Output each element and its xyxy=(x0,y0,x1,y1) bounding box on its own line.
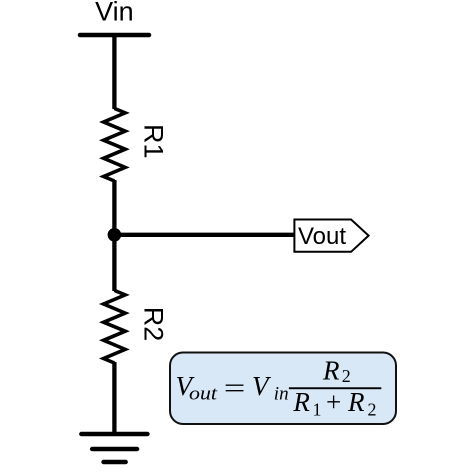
wire node to Vout xyxy=(114,233,294,237)
svg-text:+: + xyxy=(326,387,341,417)
svg-text:R1: R1 xyxy=(139,124,169,159)
svg-text:1: 1 xyxy=(313,399,322,419)
wire R2 to ground xyxy=(112,362,116,434)
supply rail Vin bar xyxy=(80,33,149,38)
svg-text:R: R xyxy=(322,355,340,385)
ground xyxy=(81,434,147,462)
svg-text:Vout: Vout xyxy=(298,223,346,250)
svg-text:out: out xyxy=(189,383,218,404)
svg-text:R2: R2 xyxy=(139,307,169,342)
svg-text:in: in xyxy=(274,383,289,404)
svg-text:R: R xyxy=(347,387,365,417)
svg-text:Vin: Vin xyxy=(95,0,134,27)
svg-text:=: = xyxy=(224,373,246,403)
wire R1 to node xyxy=(112,180,116,236)
resistor R1 xyxy=(104,108,126,181)
svg-text:R: R xyxy=(292,387,310,417)
Vout flag xyxy=(294,220,368,252)
resistor R2 xyxy=(104,290,126,363)
svg-text:2: 2 xyxy=(368,399,377,419)
wire node to R2 xyxy=(112,234,116,291)
wire Vin to R1 xyxy=(112,34,116,109)
formula box xyxy=(170,353,396,425)
node junction dot xyxy=(108,228,122,242)
svg-text:2: 2 xyxy=(342,366,351,386)
formula Vout = Vin R2/(R1+R2) xyxy=(176,355,382,419)
